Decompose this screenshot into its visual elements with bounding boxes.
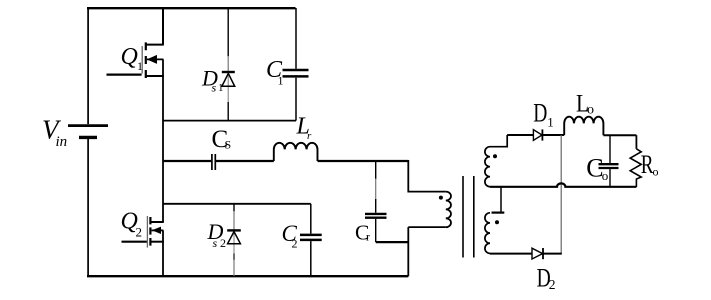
transformer secondary bottom winding: [485, 213, 490, 254]
diode Ds2: [227, 204, 241, 276]
label Cs: [212, 126, 232, 153]
svg-text:s: s: [213, 236, 218, 250]
svg-text:Q: Q: [121, 44, 138, 70]
label C1: [266, 57, 284, 88]
wire left branch lower: [87, 139, 89, 276]
svg-text:r: r: [307, 130, 312, 142]
capacitor Cs: [212, 154, 215, 170]
capacitor Co: [599, 135, 619, 187]
secondary top dot: [493, 154, 497, 158]
label Ds2: [207, 219, 227, 250]
secondary bottom dot: [495, 220, 499, 224]
svg-text:2: 2: [220, 236, 226, 250]
capacitor C1: [283, 8, 309, 121]
wire Q1 source / mid vertical: [162, 59, 164, 222]
svg-text:1: 1: [278, 74, 284, 88]
wire mid rail left: [163, 160, 211, 162]
svg-text:1: 1: [547, 115, 554, 130]
label Vin: [42, 115, 67, 151]
resistor Ro: [630, 135, 641, 187]
wire output bottom rail with hop: [490, 183, 636, 186]
label Lo: [576, 90, 594, 118]
label Co: [586, 153, 608, 183]
wire Cr bottom link: [376, 241, 409, 243]
wire Q2 gate lead: [122, 241, 147, 243]
svg-text:2: 2: [292, 237, 298, 251]
wire Q1 gate lead: [107, 73, 142, 75]
wire primary bottom link: [408, 227, 446, 276]
svg-text:r: r: [366, 232, 370, 244]
capacitor C2: [300, 204, 322, 276]
diode Ds1: [222, 8, 235, 121]
wire center tap link: [500, 187, 502, 213]
wire Q2 source vertical: [162, 230, 164, 276]
inductor Lo: [564, 117, 603, 135]
svg-text:o: o: [653, 164, 659, 178]
diode D2: [490, 248, 562, 259]
capacitor Cr: [365, 161, 387, 242]
diode D1: [507, 129, 564, 140]
svg-text:2: 2: [136, 225, 143, 240]
wire top rail: [87, 7, 296, 9]
svg-text:in: in: [56, 134, 68, 150]
transistor Q1: [142, 42, 164, 78]
svg-text:1: 1: [218, 82, 224, 94]
wire primary top link: [408, 160, 446, 192]
svg-text:S: S: [225, 138, 232, 152]
svg-text:o: o: [587, 103, 594, 118]
wire output top rail: [603, 134, 636, 136]
label Lr: [296, 114, 313, 143]
battery Vin: [68, 126, 108, 138]
primary dot: [439, 196, 443, 200]
label Q2: [121, 209, 143, 240]
inductor Lr: [274, 143, 318, 161]
svg-text:s: s: [212, 81, 217, 95]
svg-text:2: 2: [549, 277, 556, 292]
svg-text:o: o: [602, 168, 609, 183]
svg-text:1: 1: [137, 59, 143, 73]
label Ds1: [201, 66, 224, 95]
label Ro: [641, 149, 659, 179]
wire upper box bottom rail: [163, 120, 296, 122]
wire bottom rail: [87, 275, 408, 277]
label Q1: [121, 44, 144, 73]
label Cr: [355, 221, 370, 245]
wire Q1 drain from top rail: [146, 8, 164, 45]
wire left branch upper: [87, 8, 89, 125]
label D1: [533, 99, 554, 130]
svg-text:D: D: [533, 99, 547, 127]
transformer primary winding: [446, 192, 451, 228]
transformer core: [463, 176, 474, 258]
wire mid rail right: [318, 160, 409, 162]
label C2: [282, 221, 298, 251]
transformer secondary top winding: [485, 135, 507, 187]
transistor Q2: [147, 216, 163, 248]
wire lower box top rail: [163, 203, 311, 205]
label D2: [537, 264, 556, 292]
node diode junction vertical: [560, 135, 562, 254]
wire mid rail center: [216, 160, 274, 162]
